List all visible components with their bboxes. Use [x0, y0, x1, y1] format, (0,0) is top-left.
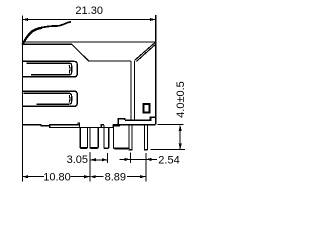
flange bottom line — [113, 124, 156, 126]
svg-text:8.89: 8.89 — [105, 171, 126, 183]
bottom face left section — [22, 125, 49, 126]
flange left tab — [118, 119, 124, 125]
dim 3.05 left arrow — [90, 158, 96, 161]
dim 4.0 up arrow — [179, 125, 182, 131]
post P2 — [90, 128, 98, 149]
dim 4.0 down arrow — [179, 144, 182, 150]
slim middle pin — [104, 125, 109, 149]
block top-left notch — [114, 125, 120, 126]
inner right wall double line — [131, 60, 134, 119]
slot 1 outer — [22, 61, 77, 77]
svg-text:2.54: 2.54 — [158, 155, 179, 167]
pin A (under flange) — [129, 125, 132, 151]
pin B (under flange) — [144, 125, 147, 151]
dim 4.0 bottom extension line — [150, 148, 185, 150]
svg-text:21.30: 21.30 — [75, 5, 103, 17]
slim pin bottom cap — [104, 147, 108, 149]
dim 8.89 line right part with arrow — [127, 176, 146, 178]
left edge + extension line (top dim to bottom dim) — [21, 16, 23, 182]
svg-text:3.05: 3.05 — [67, 154, 88, 166]
latch curve lower thick part — [23, 28, 41, 44]
dim 8.89 right extension tick — [145, 153, 147, 181]
inner top profile line — [22, 44, 131, 61]
dim 8.89 left arrow and line — [90, 175, 96, 178]
pin A bottom cap — [129, 149, 132, 151]
dim 3.05 line (left tick shared with x=89.9 extension) — [90, 159, 108, 161]
thin bottom bar — [50, 125, 80, 128]
body top edge — [22, 41, 155, 43]
svg-text:4.0±0.5: 4.0±0.5 — [175, 81, 187, 118]
dim 2.54 line (right tick shared with x=145.8 extension) — [120, 158, 158, 160]
pin B bottom cap — [145, 149, 148, 151]
bottom face middle section — [78, 123, 113, 128]
slot 2 contact tip arc — [68, 95, 71, 103]
chamfer edge lines (top-right corner) — [135, 42, 156, 60]
square hole in right wall — [144, 104, 150, 113]
svg-text:10.80: 10.80 — [43, 171, 71, 183]
dim 21.30 left arrow — [23, 18, 29, 21]
dim 10.80 line right part with arrow — [70, 176, 90, 178]
block bottom cap — [114, 147, 129, 149]
dim 3.05 right tick — [107, 153, 109, 163]
dim 10.80 line left part with arrow — [22, 176, 44, 178]
post P2 bottom cap — [91, 147, 98, 149]
dim 4.0 top extension line — [158, 124, 184, 126]
slot 1 contact tip arc — [68, 65, 71, 73]
right edge + extension line — [155, 15, 157, 125]
post P1 — [80, 128, 87, 149]
post P1 bottom cap — [81, 147, 87, 149]
dim 2.54 left tick — [129, 153, 131, 163]
slot 2 outer — [22, 91, 77, 106]
dim 2.54 right outside arrow — [146, 158, 152, 161]
dim 21.30 line — [22, 19, 155, 21]
mounting block under flange — [114, 125, 130, 149]
dim 21.30 right arrow — [150, 18, 156, 21]
dim 2.54 left outside arrow — [125, 158, 131, 161]
dim 3.05 right arrow — [102, 158, 108, 161]
flange top line and right step — [125, 117, 156, 120]
slim pin step ledge — [101, 125, 104, 128]
shared extension tick at x=89.9 — [89, 152, 91, 181]
dim 4.0 vertical line — [179, 125, 181, 149]
slot 1 inner contact — [27, 63, 72, 75]
latch spring curve — [23, 22, 71, 44]
slot 2 inner contact — [23, 93, 71, 104]
